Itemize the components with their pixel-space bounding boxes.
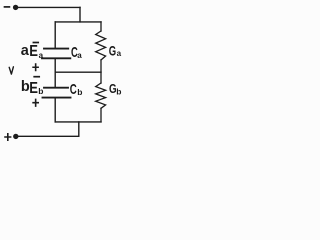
svg-text:a: a	[39, 51, 44, 60]
polarity plus below Eb	[33, 99, 38, 106]
svg-text:b: b	[38, 86, 43, 96]
wire Ga-Gb link vertical	[100, 60, 102, 83]
svg-text:C: C	[70, 81, 77, 98]
svg-text:b: b	[116, 87, 121, 97]
svg-text:a: a	[117, 49, 122, 58]
wire Ca-Cb link vertical	[54, 59, 56, 87]
svg-text:E: E	[29, 80, 38, 97]
wire bottom feed vertical	[78, 122, 80, 136]
terminal minus top-left	[5, 6, 10, 8]
wire bottom bus	[55, 121, 101, 123]
svg-text:E: E	[29, 43, 38, 60]
capacitor Ca	[44, 48, 68, 50]
node dot bottom	[13, 134, 18, 139]
polarity plus below Ea	[33, 64, 38, 71]
terminal plus bottom-left	[5, 134, 11, 140]
svg-text:b: b	[77, 87, 82, 97]
svg-text:a: a	[77, 51, 82, 60]
polarity minus above Ea	[33, 42, 38, 44]
label v	[9, 67, 13, 74]
wire Gb bottom lead	[100, 108, 102, 122]
wire bottom horizontal	[18, 135, 79, 137]
node dot top	[13, 5, 18, 10]
wire top bus	[55, 21, 101, 23]
capacitor Cb	[44, 87, 68, 89]
wire top horizontal	[17, 6, 80, 8]
wire Cb bottom lead	[54, 99, 56, 122]
resistor Ga	[96, 31, 106, 60]
wire Ca top lead	[54, 22, 56, 48]
wire Ga top lead	[100, 22, 102, 31]
resistor Gb	[96, 83, 106, 108]
svg-text:G: G	[109, 44, 116, 59]
wire top feed vertical	[79, 7, 81, 22]
polarity minus above Eb	[34, 76, 39, 78]
wire middle bus	[55, 71, 101, 73]
